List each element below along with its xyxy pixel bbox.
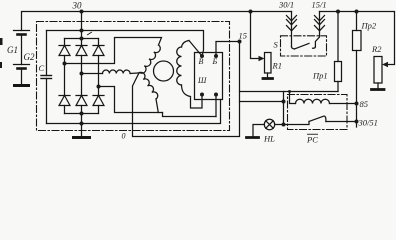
svg-text:R2: R2 xyxy=(371,44,382,54)
svg-text:В: В xyxy=(199,57,204,66)
svg-text:15/1: 15/1 xyxy=(312,0,327,10)
svg-text:30: 30 xyxy=(72,1,83,11)
svg-text:Б: Б xyxy=(212,57,218,66)
svg-text:15: 15 xyxy=(239,31,248,41)
svg-text:Ш: Ш xyxy=(197,76,207,85)
svg-text:R1: R1 xyxy=(272,61,282,71)
svg-text:Пр1: Пр1 xyxy=(312,71,328,81)
svg-text:0: 0 xyxy=(122,132,126,141)
svg-text:HL: HL xyxy=(263,134,275,144)
svg-text:G1: G1 xyxy=(7,45,18,55)
svg-text:30/1: 30/1 xyxy=(278,0,294,10)
svg-text:30/51: 30/51 xyxy=(358,118,378,128)
svg-text:G2: G2 xyxy=(24,52,35,62)
svg-text:РС: РС xyxy=(306,135,318,145)
svg-text:C: C xyxy=(39,63,45,73)
svg-text:85: 85 xyxy=(360,99,369,109)
svg-text:Пр2: Пр2 xyxy=(361,21,377,31)
